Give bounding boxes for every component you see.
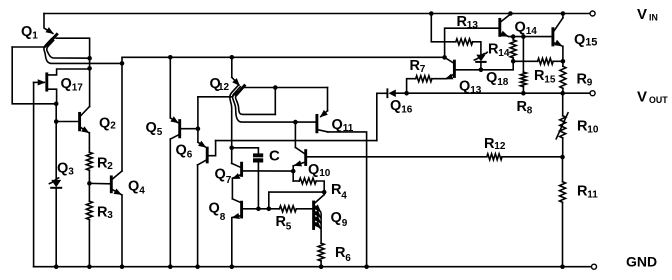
svg-text:Q: Q [486,70,497,86]
svg-text:12: 12 [494,141,506,152]
svg-text:Q: Q [176,143,187,159]
svg-text:Q: Q [390,98,401,114]
svg-text:12: 12 [218,82,230,93]
svg-text:9: 9 [342,218,348,229]
svg-text:6: 6 [345,253,351,264]
svg-text:11: 11 [343,123,354,134]
svg-text:Q: Q [21,24,32,40]
svg-text:C: C [269,148,280,165]
svg-text:3: 3 [68,167,74,178]
svg-text:Q: Q [332,117,343,133]
svg-text:Q: Q [215,167,226,183]
svg-text:Q: Q [209,201,220,217]
svg-text:6: 6 [187,150,193,161]
svg-text:16: 16 [401,105,413,116]
svg-text:10: 10 [319,168,331,179]
svg-text:8: 8 [527,106,533,117]
svg-text:GND: GND [626,254,657,270]
svg-text:Q: Q [308,162,319,178]
svg-text:Q: Q [128,179,139,195]
svg-text:5: 5 [286,222,292,233]
svg-text:14: 14 [498,48,510,59]
svg-text:13: 13 [467,20,479,31]
svg-text:V: V [637,6,647,23]
svg-text:15: 15 [544,75,556,86]
svg-text:7: 7 [226,175,232,186]
svg-text:Q: Q [99,116,110,132]
svg-text:7: 7 [420,64,426,75]
svg-text:1: 1 [32,31,38,42]
svg-text:V: V [637,89,647,106]
svg-text:2: 2 [107,161,113,172]
svg-text:18: 18 [497,77,509,88]
svg-text:OUT: OUT [649,95,668,105]
svg-text:Q: Q [61,76,72,92]
svg-text:17: 17 [72,83,84,94]
svg-text:4: 4 [139,185,145,196]
svg-text:Q: Q [146,120,157,136]
svg-text:Q: Q [515,20,526,36]
svg-text:Q: Q [57,161,68,177]
svg-text:2: 2 [110,121,116,132]
svg-text:IN: IN [649,13,658,23]
svg-text:5: 5 [157,127,163,138]
svg-text:3: 3 [107,210,113,221]
svg-text:13: 13 [470,85,482,96]
svg-text:8: 8 [220,212,226,223]
svg-text:Q: Q [459,79,470,95]
svg-text:9: 9 [587,78,593,89]
svg-text:Q: Q [574,32,585,48]
svg-text:Q: Q [331,210,342,226]
svg-text:4: 4 [341,191,347,202]
svg-text:15: 15 [585,37,597,49]
svg-text:10: 10 [587,125,599,136]
svg-text:14: 14 [526,26,538,37]
svg-text:11: 11 [587,190,598,201]
